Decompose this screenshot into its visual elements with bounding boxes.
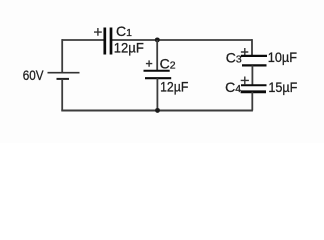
capacitor C2: bottom plate [145,77,171,79]
capacitor C2: top plate [144,70,170,72]
capacitor C3: plus sign [241,48,248,55]
wire: C4 down to bottom-right corner [251,92,253,111]
wire: C2 branch from top junction down to C2 top plate [156,40,158,71]
svg-text:60V: 60V [23,67,44,83]
capacitor C1: left plate [103,28,106,55]
capacitor C4: plus sign [241,77,249,85]
svg-text:12µF: 12µF [160,78,188,94]
capacitor C3: top plate [241,55,267,57]
wire: bottom horizontal [61,110,253,112]
svg-text:10µF: 10µF [268,49,297,65]
capacitor C1: plus sign [94,28,102,36]
capacitor C3: bottom plate [242,64,267,66]
node B: junction dot bottom (C2 branch) [155,108,160,113]
wire: top-left corner vertical (down to battery) [61,39,63,73]
battery V1: short negative plate [57,78,70,80]
wire: battery negative to bottom wire [61,79,63,111]
capacitor C2: plus sign [146,60,152,66]
wire: top horizontal (C1 right plate to right corner) [112,39,252,41]
capacitor C4: top plate [241,84,267,86]
svg-text:12µF: 12µF [114,40,144,56]
svg-text:15µF: 15µF [268,79,297,95]
wire: right branch vertical from top corner down to C3 [251,39,253,56]
capacitor C1: right plate [110,28,113,55]
node A: junction dot top (C2 branch) [155,37,160,42]
wire: top-left horizontal (corner to C1 left plate) [62,39,104,41]
battery V1 60V: long positive plate [48,72,80,74]
wire: C2 bottom plate down to bottom junction [156,78,158,110]
capacitor C4: bottom plate [241,90,266,93]
wire: between C3 and C4 [251,65,253,85]
